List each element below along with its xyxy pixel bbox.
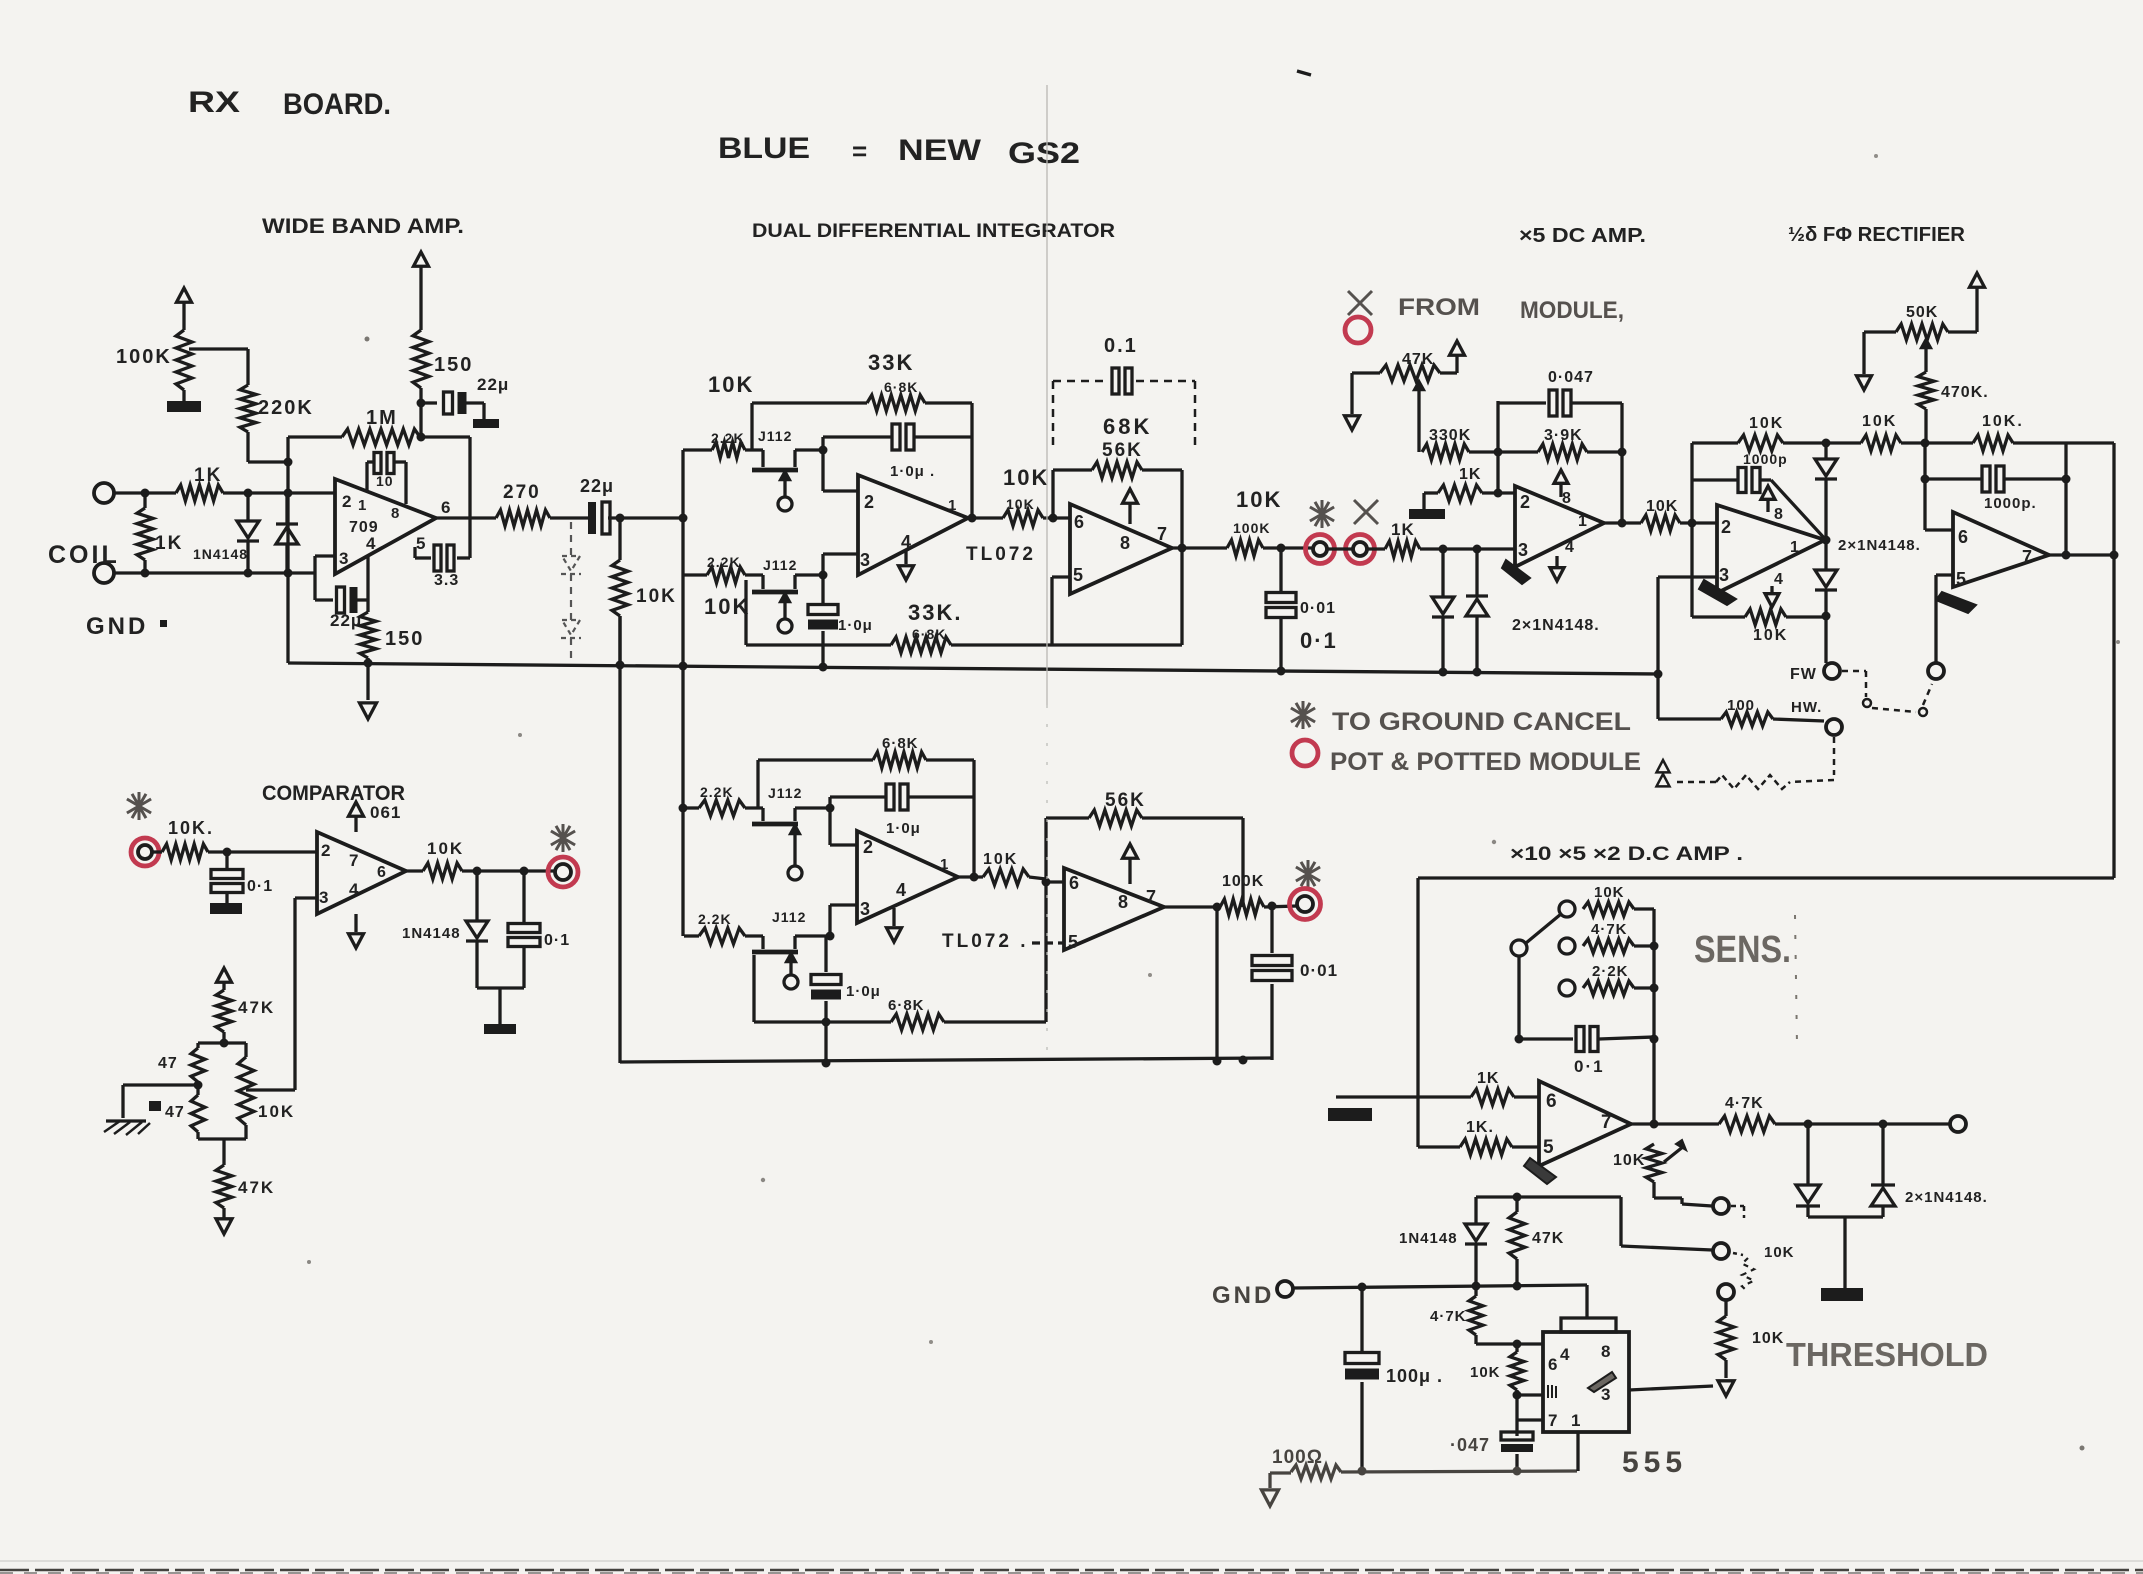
svg-text:3: 3 [1518,540,1528,560]
svg-text:2.2K: 2.2K [698,911,732,927]
diode 2x1N4148 A (x5 input clamp) [1432,549,1454,672]
svg-text:47K: 47K [238,998,275,1017]
svg-text:3: 3 [319,888,328,907]
svg-text:47: 47 [158,1055,178,1072]
svg-text:6·8K: 6·8K [912,626,946,642]
pencil note SENS [1694,929,1791,971]
diode 1N4148 A (clamp) [237,493,259,573]
resistor 1K (coil series) [176,465,223,501]
small square + label 47 [149,1101,185,1121]
svg-text:6: 6 [1546,1091,1557,1112]
wire to terminal sw2 [1621,1197,1712,1250]
capacitor 10 (pins 1-8) [367,453,406,505]
pot 10K (right branch) [238,1057,295,1139]
wire fb right vertical [968,403,977,523]
wire pin3 step [315,556,335,573]
ground bar (comp clamp) [484,1024,516,1034]
ground arrow (100ohm) [1262,1473,1279,1506]
resistor 220K [240,385,314,432]
power arrow (rect A V+) [1761,486,1775,512]
capacitor 1.0u (lower A fb) [830,784,974,837]
svg-text:4: 4 [896,880,906,900]
svg-text:4·7K: 4·7K [1430,1308,1467,1325]
svg-text:BLUE: BLUE [718,132,810,165]
svg-text:0·1: 0·1 [247,878,273,895]
label 2x1N4148 (x10) [1905,1189,1988,1206]
wire 47K wiper to 330K [1414,381,1424,452]
svg-text:555: 555 [1622,1446,1687,1479]
pencil asterisk (comp in) [127,792,151,820]
wire pin3 node [819,554,859,580]
resistor 2.2K (upper pin2 branch) [683,372,754,458]
svg-text:1·0μ: 1·0μ [846,983,881,1000]
op-amp 061 [317,832,406,914]
wire rect output down right margin [2112,443,2115,878]
svg-text:4: 4 [1774,571,1783,588]
svg-text:3.3: 3.3 [434,572,459,589]
wire x5 fb node vertical [1494,401,1503,498]
op-amp TL072 C [857,831,958,923]
resistor 4.7K (SENS) [1583,921,1659,953]
wire switch common down [1515,956,1524,1044]
svg-text:6: 6 [377,864,386,881]
resistor 150 (pin4) [360,600,424,658]
svg-text:TL072 .: TL072 . [942,931,1028,952]
wire pin3 node (lower) [826,905,858,941]
pin labels TL072 D [1068,873,1156,952]
svg-text:J112: J112 [763,557,797,573]
ground arrow (TL072 C pin4) [887,908,902,942]
svg-text:2×1N4148.: 2×1N4148. [1512,617,1600,634]
op-amp x5 [1515,486,1604,567]
svg-text:10K.: 10K. [1982,413,2024,430]
svg-text:10K: 10K [1594,884,1625,901]
wire lower cap to box bottom [822,1018,831,1068]
op-amp rect A [1717,505,1825,593]
svg-text:COMPARATOR: COMPARATOR [262,782,405,805]
svg-text:22μ: 22μ [580,476,614,496]
box x10 top [1418,876,2114,879]
red ring (gc pot note) [1292,740,1318,766]
resistor 56K (upper fb) [1053,440,1182,518]
wire pin6 (lower) [1046,880,1064,883]
resistor 10K (555) [1470,1344,1524,1434]
dashed link sw1 [1731,1206,1744,1218]
title x10 x5 x2 DC AMP [1510,844,1743,865]
wire GND rail [1293,1282,1587,1292]
resistor 1K (x10 pin6) [1336,1070,1539,1105]
pin labels 061 [319,841,386,907]
svg-text:THRESHOLD: THRESHOLD [1786,1336,1988,1373]
ground bar (comp 0.1) [210,903,242,914]
wire gnd spur [123,1085,198,1118]
svg-text:10K: 10K [1470,1364,1501,1381]
resistor 2.2K (SENS) [1583,963,1659,995]
svg-text:47K: 47K [1402,351,1434,368]
title x5 DC AMP [1519,225,1646,247]
svg-text:2×1N4148.: 2×1N4148. [1905,1189,1988,1206]
svg-text:8: 8 [1601,1342,1610,1361]
wire rect output [2049,551,2119,560]
wire lower int left vertical [618,616,621,1063]
svg-text:10K: 10K [1646,498,1678,515]
power arrow (061) [349,802,364,832]
svg-text:1K: 1K [1477,1070,1499,1087]
svg-text:10K: 10K [427,839,464,858]
ground hatch [104,1121,150,1135]
svg-text:4·7K: 4·7K [1725,1095,1764,1112]
wire pot left lower [191,1081,205,1140]
resistor 1K (shunt) [137,493,183,573]
svg-text:5: 5 [1956,569,1966,589]
pin labels TL072 B [1073,512,1167,585]
fold crease line [1046,85,1048,1060]
wire coil+ to pin2 [114,491,335,494]
resistor 10K/100K (output) [1227,487,1313,556]
wire 150 bottom [417,388,426,442]
svg-text:6: 6 [441,498,450,517]
wire 47K-diode top [1476,1193,1621,1202]
svg-text:6·8K: 6·8K [888,997,925,1014]
wire 1M right [420,435,470,438]
svg-text:22μ: 22μ [477,375,509,394]
wire pin5 dashes (lower) [1032,941,1064,944]
svg-text:WIDE BAND AMP.: WIDE BAND AMP. [262,215,464,238]
junction dots input wire [141,489,253,498]
note BLUE = NEW GS2 [718,132,1080,170]
ground arrow (061) [349,914,364,948]
resistor 10K (threshold) [1718,1300,1784,1378]
svg-text:1: 1 [1790,539,1799,556]
ground arrow (rect A pin4) [1765,586,1779,607]
svg-text:7: 7 [1548,1411,1557,1430]
svg-text:1: 1 [1571,1411,1580,1430]
capacitor 22u (V+ decoup) [421,375,509,419]
resistor 100K (lower output) [1220,873,1297,915]
marker blob (rect A pin3) [1699,580,1736,605]
resistor 6.8K (lower A fb) [758,735,974,808]
power arrow (TL072 B V+) [1123,489,1138,524]
svg-text:0·1: 0·1 [1300,628,1338,653]
svg-text:FROM: FROM [1398,294,1480,321]
svg-text:3: 3 [860,550,870,570]
wire 56K verticals (lower) [1042,818,1244,1022]
svg-text:6: 6 [1958,527,1968,547]
svg-text:3: 3 [1719,565,1729,585]
title RX BOARD [188,86,391,121]
stray pen mark [1297,71,1311,75]
svg-text:3: 3 [1601,1385,1610,1404]
svg-text:×5 DC AMP.: ×5 DC AMP. [1519,225,1646,247]
capacitor 22u (coupling) [580,476,614,534]
resistor 4.7K (555) [1430,1286,1483,1344]
svg-text:6: 6 [1069,873,1079,893]
svg-text:100: 100 [1727,697,1755,714]
svg-text:7: 7 [1146,887,1156,907]
resistor 10K (rect out fb) [1925,413,2114,451]
capacitor 3.3 (pin5) [415,545,470,589]
svg-text:10K: 10K [1752,1330,1784,1347]
capacitor 1.0u (upper B, electrolytic) [808,575,873,663]
switch SENS common [1511,914,1561,956]
wire 555 pin2 [1517,1395,1543,1420]
svg-text:4: 4 [349,880,359,899]
svg-text:3·9K: 3·9K [1544,427,1583,444]
ground arrow (divider) [216,1219,232,1234]
svg-text:0.1: 0.1 [1104,335,1138,357]
svg-text:10K: 10K [1006,496,1035,512]
svg-text:BOARD.: BOARD. [283,88,391,121]
svg-text:1K: 1K [194,465,222,486]
resistor 10K (comp in) [152,818,317,860]
svg-text:2: 2 [1520,492,1530,512]
label TL072 (lower) [942,931,1028,952]
resistor 10K (rect A fb bottom) [1692,609,1826,644]
svg-text:061: 061 [370,803,401,822]
wire 555 bottom rail [1270,1467,1577,1476]
wire pin2 node [819,437,859,491]
resistor 6.8K/33K (upper B fb) [746,580,1182,653]
jfet J112 (upper B) [745,557,823,633]
svg-text:1K.: 1K. [1466,1119,1494,1136]
capacitor 0.1 (x10 fb) [1519,1027,1654,1077]
label TL072 (upper) [966,544,1036,565]
junction dots (left vertical) [284,458,293,578]
terminal X (red circled) [1346,535,1375,564]
svg-text:10K: 10K [258,1102,295,1121]
wire pin5 loop (TL072 B) [1052,577,1070,645]
scanner edge band [0,1561,2143,1573]
op-amp TL072 A [858,475,968,575]
paper specks [307,154,2120,1451]
svg-text:10K: 10K [1749,415,1784,432]
terminal SENS 2.2K [1559,980,1575,996]
pin labels TL072 A [860,492,956,570]
svg-text:6·8K: 6·8K [884,379,918,395]
svg-text:0·047: 0·047 [1548,369,1594,386]
terminal HW [1791,699,1842,735]
svg-text:2×1N4148.: 2×1N4148. [1838,537,1921,554]
timer 555 body [1543,1318,1629,1432]
resistor 6.8K/33K (upper A fb) [752,350,972,450]
wire 220K bottom to node [248,432,288,462]
svg-text:MODULE,: MODULE, [1520,297,1624,324]
terminal SENS 10K [1559,901,1575,917]
svg-text:·047: ·047 [1450,1435,1490,1455]
wire 555 pin3 out [1629,1386,1713,1390]
svg-text:10K: 10K [704,594,750,619]
svg-text:1·0μ: 1·0μ [838,617,873,634]
svg-text:10K: 10K [1753,627,1788,644]
capacitor 0.047 [1498,369,1622,416]
svg-text:6·8K: 6·8K [882,735,919,752]
pot box bottom [198,1137,246,1140]
resistor 47K (555) [1509,1197,1564,1286]
svg-text:7: 7 [1601,1112,1612,1133]
ground bar (x10 in) [1328,1108,1372,1121]
svg-text:1N4148: 1N4148 [1399,1230,1458,1247]
wire pot wiper to pin3 [246,898,317,1090]
resistor 10K (comp out) [406,839,556,879]
svg-text:1M: 1M [366,407,398,429]
svg-text:5: 5 [1073,565,1083,585]
ground bar (100K) [167,401,201,412]
terminal sw2 [1713,1243,1729,1259]
svg-text:DUAL DIFFERENTIAL INTEGRATOR: DUAL DIFFERENTIAL INTEGRATOR [752,221,1115,242]
resistor 10K (rect series) [1826,413,1930,451]
power arrow (divider top) [217,968,232,990]
svg-text:NEW: NEW [898,134,982,167]
terminal sw1 [1713,1198,1729,1214]
wire TL072 B output [1172,546,1227,549]
svg-text:47: 47 [165,1104,185,1121]
label COIL [48,541,120,569]
terminal SENS 4.7K [1559,938,1575,954]
red ring (from module) [1345,317,1371,343]
svg-text:10K: 10K [1236,487,1282,512]
power arrow (x5 V+) [1554,470,1568,497]
svg-text:47K: 47K [1532,1230,1564,1247]
svg-text:2: 2 [321,841,330,860]
svg-text:100K: 100K [1222,873,1264,890]
svg-text:0·1: 0·1 [544,932,570,949]
resistor 100ohm [1272,1447,1341,1479]
svg-text:1: 1 [358,497,366,514]
svg-text:6: 6 [1548,1355,1557,1374]
svg-text:1: 1 [940,856,948,873]
dashed power arrow (HW) [1657,760,1670,786]
terminal comp output (red circled) [548,857,578,887]
pencil X (module) [1354,500,1378,524]
svg-text:5: 5 [1543,1137,1554,1158]
label 2x1N4148 (rect) [1838,537,1921,554]
svg-text:220K: 220K [258,397,314,419]
wire rect fb left vertical [1690,443,1693,617]
svg-text:8: 8 [391,505,399,522]
wire 1K to pin3 x5 [1420,545,1515,554]
wire rect B pin5 [1928,575,1953,679]
svg-text:3: 3 [339,549,348,568]
jfet J112 (lower A) [745,785,830,880]
marker blob (x5 pin3) [1502,560,1530,584]
svg-text:2: 2 [342,492,351,511]
diode 1N4148 B (clamp) [276,493,298,573]
svg-text:2: 2 [1721,517,1731,537]
wire feedback-box right vertical [468,437,471,558]
wire lower fb right vertical [970,760,979,882]
svg-text:2.2K: 2.2K [700,784,734,800]
svg-text:2: 2 [864,492,874,512]
svg-text:8: 8 [1774,506,1783,523]
svg-text:10K: 10K [636,586,677,607]
svg-text:J112: J112 [768,785,802,801]
op-amp TL072 D [1064,868,1164,950]
capacitor 0.01 (lower output) [1252,906,1338,1060]
ground bar (22u) [473,419,499,428]
wire x5 fb right vertical [1618,403,1627,528]
svg-text:GND: GND [86,613,148,640]
svg-text:150: 150 [385,628,424,650]
wire GND rail to 555 lid [1585,1285,1588,1318]
svg-text:3: 3 [860,899,870,919]
svg-text:0·1: 0·1 [1574,1057,1605,1076]
svg-text:22μ: 22μ [330,611,362,630]
diode 1N4148 (comp) [402,871,488,988]
resistor 100K (offset pot) [116,330,192,390]
terminal x10 out [1950,1116,1966,1132]
svg-text:COIL: COIL [48,541,120,569]
coil input terminal + [94,483,114,503]
wire clamp bottom (x10) [1808,1217,1883,1288]
wire x5 output [1604,521,1641,524]
svg-text:68K: 68K [1103,414,1152,439]
ground arrow (threshold) [1718,1381,1734,1396]
resistor 10K (shunt after 22u) [612,518,677,663]
wire comp clamp bottom [477,988,524,1024]
label 2x1N4148 (x5 clamp) [1512,617,1600,634]
svg-text:1N4148: 1N4148 [193,546,248,562]
pin labels rect A [1719,506,1799,588]
terminal comp input (red circled) [131,838,159,866]
svg-text:270: 270 [503,482,541,503]
ground arrow (47K left) [1345,373,1360,430]
resistor 47K (divider top) [216,990,275,1048]
wire pin2 node (lower) [826,797,858,845]
svg-text:1N4148: 1N4148 [402,925,461,942]
svg-text:100K: 100K [116,346,172,368]
svg-text:FW: FW [1790,666,1817,683]
capacitor 22u (pin4/offset) [315,557,368,630]
resistor 47 (pot left upper) [158,1048,205,1082]
wire SENS bus vertical [1650,909,1659,1129]
svg-text:100μ .: 100μ . [1386,1366,1443,1386]
marker blob (rect B pin5) [1936,592,1976,613]
svg-text:GS2: GS2 [1008,137,1080,170]
op-amp 709 [335,479,436,574]
pot 47K (offset) [1352,351,1457,381]
svg-text:0·01: 0·01 [1300,961,1338,980]
pencil note THRESHOLD [1786,1336,1988,1373]
wire 22u to integrator node [608,514,688,523]
svg-text:10: 10 [376,473,394,489]
svg-text:7: 7 [349,851,358,870]
svg-text:10K: 10K [1613,1152,1645,1169]
resistor 150 (V+ decoup) [413,330,473,388]
capacitor 0.1 (comp in) [211,852,273,903]
op-amp x10 [1539,1081,1631,1166]
svg-text:TL072: TL072 [966,544,1036,565]
op-amp rect B [1953,512,2049,587]
pot 50K [1864,288,1977,340]
svg-text:8: 8 [1120,533,1130,553]
resistor 100 (HW) [1658,674,1824,726]
wire 4.7K to 555 pin6 [1476,1340,1543,1349]
pencil dashes below SENS [1795,915,1797,1045]
svg-text:RX: RX [188,86,240,119]
resistor 10K (SENS) [1583,884,1654,916]
wire 220K top [246,349,249,385]
wire lower box right vertical [1215,907,1218,1061]
svg-text:J112: J112 [758,428,792,444]
svg-text:GND: GND [1212,1282,1274,1309]
svg-text:SENS.: SENS. [1694,929,1791,971]
terminal * (red circled) [1306,535,1335,564]
label 555 [1622,1446,1687,1479]
capacitor 0.01/0.1 (output) [1266,548,1338,671]
ground arrow (x5 pin4) [1550,556,1564,581]
resistor 2.2K (lower pin2 branch) [684,784,745,816]
dashed switch linkage (FW) [1842,671,1932,716]
